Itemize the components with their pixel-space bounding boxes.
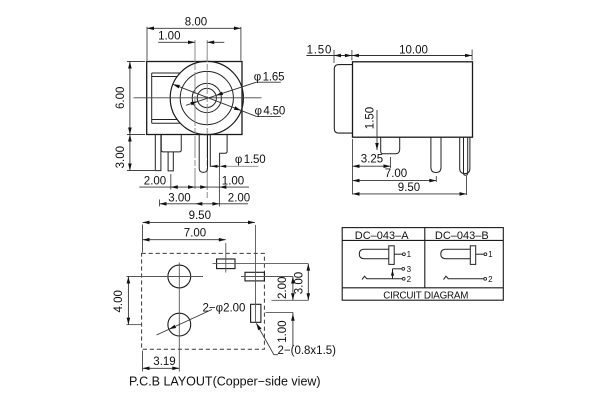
pcb hole 2 <box>168 313 191 336</box>
svg-text:9.50: 9.50 <box>398 182 420 194</box>
arrowhead 10.00 right <box>465 54 472 58</box>
arrowhead 1.50 vertical down <box>375 143 379 150</box>
circuit A pin2 wire <box>367 278 402 280</box>
dimension 8.00 extension lines <box>147 27 241 61</box>
dimension 1.50 vertical line <box>376 110 378 150</box>
dimension 1.00 pcb vertical line <box>292 312 294 346</box>
pcb pad 3 <box>251 304 261 322</box>
front boss block <box>161 135 181 152</box>
extension line pcb left <box>142 225 144 253</box>
arrowhead 7.00 pcb left <box>143 238 150 242</box>
arrowhead 3.00 top <box>128 135 132 142</box>
dimension 3.00 pcb vertical line <box>307 264 309 301</box>
front pin 2 <box>168 152 173 171</box>
arrowhead 7.00 right <box>429 179 436 183</box>
gray extension line center axis <box>206 40 208 199</box>
arrowhead 3.25 right <box>384 164 391 168</box>
arrowhead 3.00 bottom <box>128 164 132 171</box>
arrowhead 3.19 left <box>143 367 150 371</box>
arrowhead row2 2.00 right <box>212 202 219 206</box>
dimension 7.00 line <box>353 180 437 182</box>
svg-text:φ1.65: φ1.65 <box>254 71 285 83</box>
svg-text:2.00: 2.00 <box>277 277 289 299</box>
dimension 7.00 pcb line <box>143 239 226 241</box>
dimension 6.00 line <box>129 62 131 135</box>
svg-text:1: 1 <box>488 250 493 259</box>
dimension row2 line (3.00 / 2.00) <box>160 203 249 205</box>
svg-text:φ1.50: φ1.50 <box>235 154 266 166</box>
dimension 9.50 pcb line <box>143 221 256 223</box>
arrowhead 8.00 left <box>147 27 154 31</box>
dimension 6.00 extension lines <box>127 62 145 135</box>
svg-text:4.00: 4.00 <box>113 290 125 312</box>
pcb pad 1 <box>217 259 235 269</box>
svg-text:2−φ2.00: 2−φ2.00 <box>203 302 246 314</box>
front pin 1 (left long pin) <box>155 135 161 171</box>
arrowhead 2.00 pcb bottom <box>291 293 295 300</box>
circuit A spring contact <box>362 276 367 279</box>
pcb pad 3 vertical line <box>255 225 257 322</box>
circuit A terminal 1 <box>403 253 406 256</box>
arrowhead 9.50 left <box>353 192 360 196</box>
horizontal centerline of barrel <box>134 97 262 99</box>
arrowhead 3.00 pcb top <box>307 264 311 271</box>
svg-text:3.00: 3.00 <box>168 193 190 205</box>
svg-text:DC–043–A: DC–043–A <box>355 230 409 242</box>
circuit table divider <box>424 228 426 288</box>
arrowhead 7.00 pcb right <box>219 238 226 242</box>
arrowhead 6.00 bottom <box>128 128 132 135</box>
extension line right pin <box>218 155 220 207</box>
pcb hole1 horizontal centerline <box>127 276 204 278</box>
svg-text:3.00: 3.00 <box>293 272 305 294</box>
svg-text:2.00: 2.00 <box>228 193 250 205</box>
side view flat pin <box>381 137 400 154</box>
pcb pad 1 vertical centerline <box>225 243 227 273</box>
circuit B terminal 1 <box>484 253 487 256</box>
dimension 8.00 line <box>147 27 241 29</box>
pcb hole2 extension line <box>127 324 142 326</box>
pcb pad 2 centerline <box>241 276 293 278</box>
pcb dashed outline <box>142 253 265 349</box>
dimension 3.19 line <box>143 367 180 369</box>
svg-text:7.00: 7.00 <box>385 168 407 180</box>
circuit A switch arrowhead <box>391 270 394 276</box>
pcb pad 1 horizontal centerline <box>213 263 309 265</box>
extension line pin1 center <box>159 200 161 207</box>
dimension 2.00 pcb vertical line <box>292 277 294 301</box>
arrowhead phi1.50 outer <box>220 165 227 168</box>
svg-text:10.00: 10.00 <box>399 44 428 56</box>
circuit B terminal 2 <box>484 277 487 280</box>
svg-text:2: 2 <box>488 275 493 284</box>
barrel outer circle <box>170 61 243 134</box>
extension line pin2 <box>170 174 172 190</box>
dimension 1.50/10.00 extension lines <box>334 50 472 64</box>
arrowhead phi4.50 upper-left <box>173 84 180 88</box>
extension line 3.00 bottom <box>127 170 159 172</box>
svg-text:2−(0.8x1.5): 2−(0.8x1.5) <box>278 345 337 357</box>
svg-text:1.50: 1.50 <box>364 107 376 129</box>
svg-text:1.00: 1.00 <box>158 31 180 43</box>
circuit B pin1 wire <box>476 253 484 255</box>
circuit A terminal 2 <box>402 277 405 280</box>
extension line side body left <box>352 139 354 195</box>
arrowhead 9.50 right <box>460 192 467 196</box>
leader line phi1.65 <box>186 82 281 105</box>
arrowhead phi1.50 inner <box>211 165 218 168</box>
extension line 3.25 <box>390 157 392 168</box>
svg-text:CIRCUIT DIAGRAM: CIRCUIT DIAGRAM <box>383 291 468 302</box>
arrowhead 1.00 left <box>188 41 195 45</box>
barrel circle phi4.50 <box>180 71 233 124</box>
extension line 3.19 left <box>142 351 144 372</box>
svg-text:1.00: 1.00 <box>277 320 289 342</box>
center pin circle phi1.65 <box>197 88 216 107</box>
extension line 7.00 <box>435 176 437 182</box>
leader line phi4.50 <box>173 84 281 116</box>
dimension 9.50 line <box>353 193 467 195</box>
gray extension line at 1.00 left <box>194 40 196 189</box>
arrowhead 6.00 top <box>128 62 132 69</box>
barrel circle mid <box>192 83 221 112</box>
pcb pad 2 <box>245 272 264 281</box>
circuit A sleeve bar <box>389 246 394 265</box>
dimension row1 line (2.00 / 1.00) <box>139 186 249 188</box>
svg-text:P.C.B LAYOUT(Copper−side view): P.C.B LAYOUT(Copper−side view) <box>129 374 321 388</box>
circuit B spring contact <box>444 276 449 279</box>
svg-text:1.00: 1.00 <box>222 175 244 187</box>
arrowhead 3.00 pcb bottom <box>307 293 311 300</box>
circuit table header line <box>342 239 503 241</box>
pcb vertical centerline <box>178 263 180 372</box>
circuit A switch arm <box>392 269 394 279</box>
front right block and flat pin <box>210 135 227 167</box>
circuit A pin1 wire <box>394 253 402 255</box>
arrowhead 7.00 left <box>353 179 360 183</box>
pcb pad 3 horizontal centerline <box>266 311 294 313</box>
leader 2-phi2.00 <box>157 310 213 336</box>
arrowhead 1.00 pcb <box>291 314 295 321</box>
arrowhead 2-phi2.00 <box>169 325 176 330</box>
svg-text:3.00: 3.00 <box>115 146 127 168</box>
dimension 3.25 line <box>353 165 391 167</box>
arrowhead 8.00 right <box>234 27 241 31</box>
pcb hole 1 <box>168 265 191 288</box>
circuit B plug pill <box>441 249 471 259</box>
arrowhead row2 2.00 left <box>195 202 202 206</box>
arrowhead row1 1.00 right <box>219 185 226 189</box>
svg-text:DC–043–B: DC–043–B <box>435 230 489 242</box>
leader 2-(0.8x1.5) <box>256 323 278 354</box>
svg-text:3.25: 3.25 <box>361 154 383 166</box>
svg-text:9.50: 9.50 <box>189 210 211 222</box>
svg-text:6.00: 6.00 <box>115 87 127 109</box>
circuit B pin2 wire <box>448 278 483 280</box>
circuit A terminal 3 <box>402 267 405 270</box>
arrowhead 2-(0.8x1.5) <box>256 323 261 330</box>
arrowhead phi1.65 upper-right <box>216 92 223 96</box>
arrowhead 1.00 right <box>207 41 214 45</box>
svg-text:2.00: 2.00 <box>144 175 166 187</box>
dimension 3.00 left line <box>129 135 131 171</box>
svg-text:8.00: 8.00 <box>185 17 207 29</box>
arrowhead 10.00 left <box>352 54 359 58</box>
arrowhead 4.00 bottom <box>127 318 131 325</box>
circuit table outer box <box>342 228 503 301</box>
dimension 1.50/10.00 line <box>306 55 472 57</box>
side view pin R2 outer <box>460 137 470 173</box>
extension line 9.50 <box>466 176 468 195</box>
dimension 4.00 line <box>127 277 129 325</box>
svg-text:7.00: 7.00 <box>184 227 206 239</box>
svg-text:3: 3 <box>407 265 412 274</box>
side view barrel <box>334 65 352 134</box>
circuit table footer line <box>342 287 503 289</box>
svg-text:3.19: 3.19 <box>153 356 175 368</box>
front center pin (U shape) <box>199 135 207 173</box>
arrowhead 1.50 left <box>334 54 341 58</box>
pcb axis extension line <box>272 299 309 301</box>
front view housing step (left inner rectangle) <box>152 73 181 123</box>
circuit B sleeve bar <box>470 246 475 265</box>
arrowhead row1 1.00 left <box>200 185 207 189</box>
arrowhead 9.50 pcb left <box>143 221 150 225</box>
arrowhead row1 2.00 right <box>188 185 195 189</box>
svg-text:φ4.50: φ4.50 <box>255 105 286 117</box>
leader line phi1.50 <box>221 165 258 167</box>
arrowhead row2 3.00 left <box>160 202 167 206</box>
svg-text:1.50: 1.50 <box>307 44 333 56</box>
side view pin R2 inner slot <box>464 137 468 175</box>
circuit A plug pill <box>359 249 389 259</box>
arrowhead 4.00 top <box>127 277 131 284</box>
arrowhead row1 2.00 left <box>171 185 178 189</box>
arrowhead 3.25 left <box>353 164 360 168</box>
svg-text:2: 2 <box>407 275 412 284</box>
dimension 1.00 line top <box>158 41 224 43</box>
svg-text:1: 1 <box>407 250 412 259</box>
arrowhead 9.50 pcb right <box>248 221 255 225</box>
arrowhead 3.19 right <box>172 367 179 371</box>
arrowhead 2.00 pcb top <box>291 277 295 284</box>
side view body <box>353 62 473 137</box>
front view body outline <box>147 62 242 135</box>
side view round pin R1 <box>431 137 441 172</box>
arrowhead phi4.50 lower-right <box>234 106 241 110</box>
circuit A pin3 wire <box>393 268 402 270</box>
arrowhead phi1.65 lower-left <box>191 102 198 106</box>
arrowhead 1.50 right <box>345 54 352 58</box>
